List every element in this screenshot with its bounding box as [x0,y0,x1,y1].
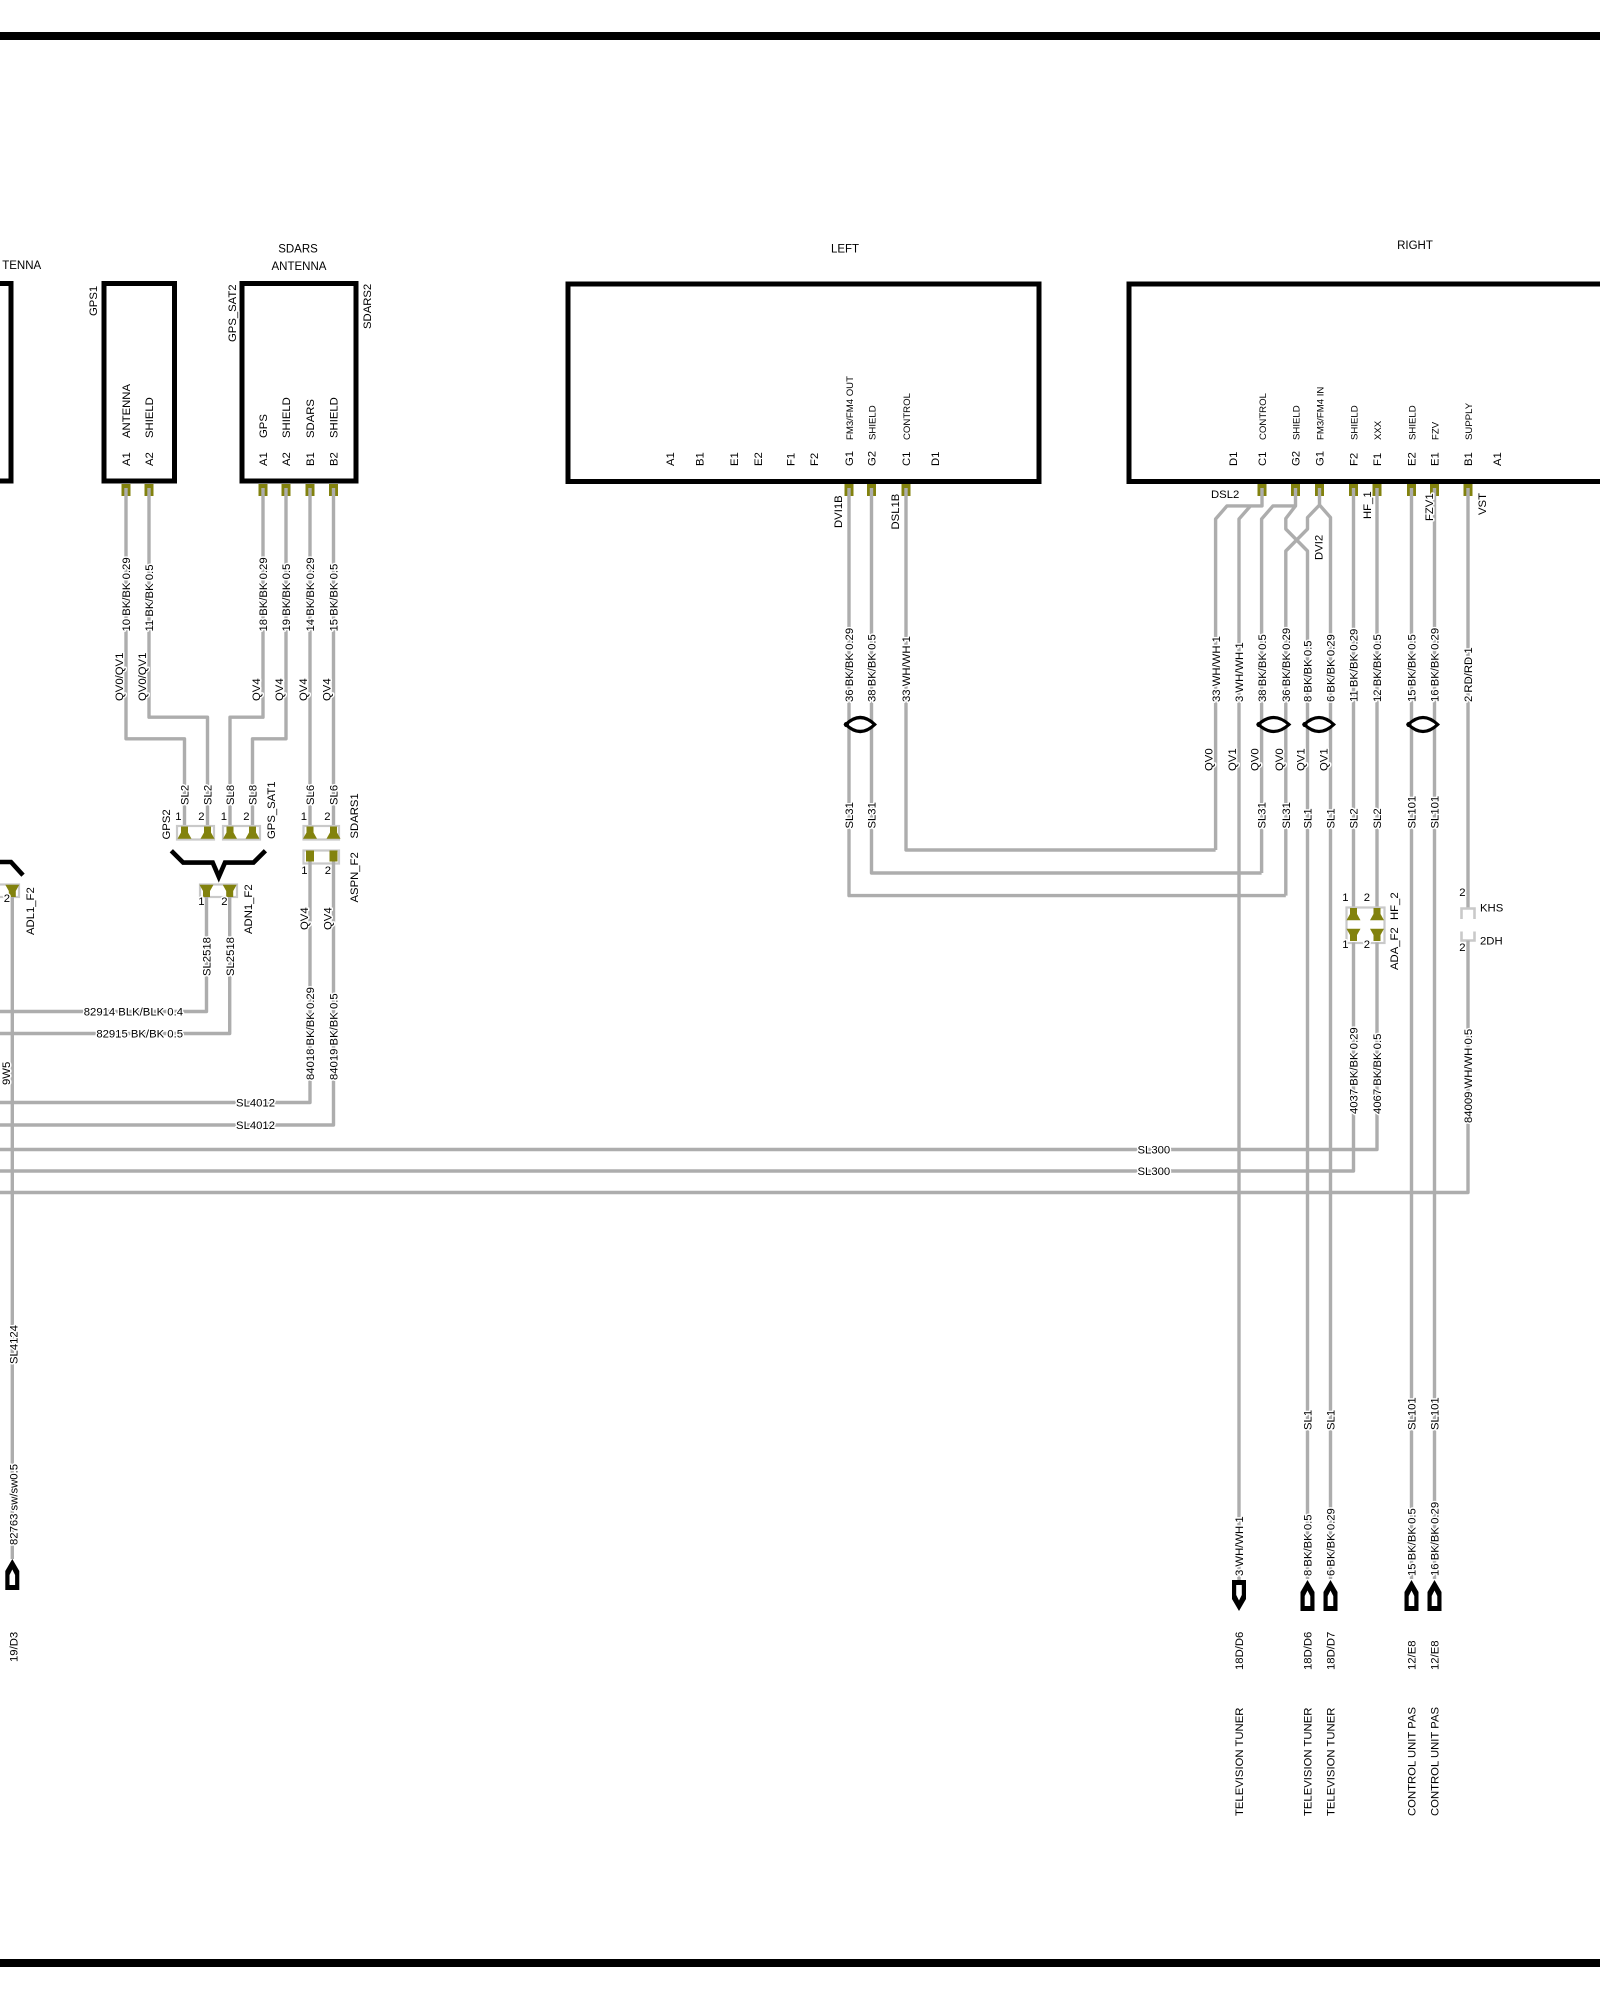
pin stub G2 of RIGHT box [1291,484,1300,496]
svg-text:33 WH/WH 1: 33 WH/WH 1 [901,636,913,702]
svg-text:A2: A2 [281,452,293,466]
svg-text:QV4: QV4 [274,678,286,701]
splice DSL2: RIGHT C1 wire splitting into two [1216,488,1262,850]
off-page arrow up (16 BK/BK 0.29) [1428,1580,1442,1611]
pin stub F2 of RIGHT box [1349,484,1358,496]
connector pin ADN1_F2-2 [223,885,237,897]
svg-text:2: 2 [325,865,331,877]
svg-text:ADA_F2: ADA_F2 [1389,927,1401,970]
svg-text:DSL1B: DSL1B [890,494,902,530]
svg-text:TENNA: TENNA [2,260,41,272]
svg-text:B1: B1 [1463,452,1475,466]
svg-text:19/D3: 19/D3 [9,1632,21,1662]
svg-text:16 BK/BK 0.29: 16 BK/BK 0.29 [1430,1502,1442,1576]
svg-text:G1: G1 [1315,451,1327,466]
svg-text:18D/D7: 18D/D7 [1326,1632,1338,1670]
svg-text:G2: G2 [1291,451,1303,466]
wire ADN1_F2 pin2 to left edge (82915) [0,897,230,1034]
svg-text:SL31: SL31 [1257,802,1269,828]
wire LEFT G2 (38 BK/BK 0.5) to junction with RIGHT 1261.6 [872,488,1262,873]
svg-text:SDARS1: SDARS1 [349,793,361,838]
svg-text:E1: E1 [729,452,741,466]
svg-text:SL1: SL1 [1303,808,1315,828]
svg-text:ASPN_F2: ASPN_F2 [349,852,361,902]
svg-text:SL1: SL1 [1326,1410,1338,1430]
off-page arrow down to television tuner (3 WH/WH 1) [1232,1580,1246,1611]
svg-text:82763 sw/sw0.5: 82763 sw/sw0.5 [9,1464,21,1545]
svg-text:C1: C1 [1257,452,1269,466]
pin stub A2 of SDARS box [282,484,291,496]
connector body SL2 (pins 1-2) [177,826,214,840]
svg-text:HF_1: HF_1 [1362,491,1374,519]
connector pin SL8-1 [223,827,237,839]
svg-text:2: 2 [324,811,330,823]
twisted pair symbol on 15/16 wires [1408,718,1437,732]
svg-text:9W5: 9W5 [1,1062,13,1085]
svg-text:4037 BK/BK 0.29: 4037 BK/BK 0.29 [1349,1027,1361,1114]
pin stub G1 of LEFT box [845,484,854,496]
svg-text:B1: B1 [305,452,317,466]
svg-text:84018 BK/BK 0.29: 84018 BK/BK 0.29 [305,987,317,1080]
off-page arrow up 19/D3 [5,1559,19,1590]
svg-text:38 BK/BK 0.5: 38 BK/BK 0.5 [1257,634,1269,702]
svg-text:SL8: SL8 [248,785,260,805]
pin stub B1 of SDARS box [306,484,315,496]
svg-text:ADN1_F2: ADN1_F2 [243,884,255,934]
svg-text:16 BK/BK 0.29: 16 BK/BK 0.29 [1430,628,1442,702]
wire ADN1_F2 pin1 to left edge (82914) [0,897,207,1012]
svg-text:TELEVISION TUNER: TELEVISION TUNER [1326,1708,1338,1816]
svg-text:QV1: QV1 [1319,748,1331,771]
svg-text:QV1: QV1 [1296,748,1308,771]
wire SDARS A1 to SL8 pin1 [230,488,263,828]
connector GPS1 (GPS antenna) box [104,284,175,482]
svg-text:A2: A2 [144,452,156,466]
svg-text:SL6: SL6 [329,785,341,805]
svg-text:FZV1: FZV1 [1424,493,1436,521]
pin stub F1 of RIGHT box [1373,484,1382,496]
svg-text:1: 1 [1342,939,1348,951]
pin stub C1 of LEFT box [902,484,911,496]
pin stub A2 of GPS1 [145,484,154,496]
SDARS ANTENNA box (GPS_SAT2 / SDARS2) [242,284,356,482]
svg-text:QV0: QV0 [1274,748,1286,771]
svg-text:F2: F2 [809,453,821,466]
wire RIGHT E2 down to off-page arrow [1410,488,1413,1579]
svg-text:FM3/FM4 IN: FM3/FM4 IN [1316,387,1327,440]
svg-text:CONTROL UNIT PAS: CONTROL UNIT PAS [1430,1707,1442,1816]
svg-text:F1: F1 [1372,453,1384,466]
svg-text:SHIELD: SHIELD [1292,405,1303,440]
svg-text:2: 2 [243,811,249,823]
svg-text:SL31: SL31 [844,802,856,828]
svg-text:1: 1 [198,896,204,908]
connector pin SL6-2 [327,827,341,839]
svg-text:3 WH/WH 1: 3 WH/WH 1 [1234,642,1246,702]
wire ASPN_F2 pin1 to left edge (84018/SL4012) [0,862,310,1103]
svg-text:A1: A1 [121,452,133,466]
connector body ASPN_F2 [304,851,340,864]
svg-text:GPS_SAT1: GPS_SAT1 [266,781,278,839]
svg-text:18D/D6: 18D/D6 [1303,1632,1315,1670]
svg-text:19 BK/BK 0.5: 19 BK/BK 0.5 [281,564,293,632]
svg-text:4067 BK/BK 0.5: 4067 BK/BK 0.5 [1372,1034,1384,1114]
pin stub B2 of SDARS box [329,484,338,496]
svg-text:82915 BK/BK 0.5: 82915 BK/BK 0.5 [96,1029,183,1041]
page bottom border bar [0,1959,1600,1967]
pin stub G2 of LEFT box [867,484,876,496]
wire RIGHT E1 down to off-page arrow [1433,488,1436,1579]
svg-text:QV0: QV0 [1250,748,1262,771]
svg-text:2: 2 [1459,942,1465,954]
svg-text:LEFT: LEFT [831,244,859,256]
pin stub E2 of RIGHT box [1407,484,1416,496]
svg-text:QV1: QV1 [1227,748,1239,771]
svg-text:SL6: SL6 [305,785,317,805]
wire ADL1_F2 pin2 down to off-page arrow 19/D3 [11,897,14,1559]
connector pin ADA_F2-1 [1347,929,1361,941]
connector pin HF_2-1 [1347,908,1361,920]
svg-text:15 BK/BK 0.5: 15 BK/BK 0.5 [1407,634,1419,702]
svg-text:2: 2 [221,896,227,908]
svg-text:F2: F2 [1349,453,1361,466]
svg-text:SL101: SL101 [1430,1397,1442,1430]
svg-text:KHS: KHS [1480,903,1504,915]
svg-text:CONTROL UNIT PAS: CONTROL UNIT PAS [1407,1707,1419,1816]
svg-text:SL31: SL31 [867,802,879,828]
connector pin SL2-1 [178,827,192,839]
bundling brace for GPS2/GPS_SAT1 into ADN1_F2 [171,851,265,877]
svg-text:SL2: SL2 [203,785,215,805]
off-page arrow up (6 BK/BK 0.29) [1324,1580,1338,1611]
svg-text:QV0: QV0 [1204,748,1216,771]
svg-text:DSL2: DSL2 [1211,489,1239,501]
svg-text:D1: D1 [1228,452,1240,466]
svg-text:E2: E2 [753,452,765,466]
connector pin ADL1_F2-2 [5,885,19,897]
connector pin ADN1_F2-1 [200,885,214,897]
svg-text:84009 WH/WH 0.5: 84009 WH/WH 0.5 [1463,1029,1475,1123]
svg-text:84019 BK/BK 0.5: 84019 BK/BK 0.5 [329,993,341,1080]
svg-text:12/E8: 12/E8 [1407,1640,1419,1670]
wire SDARS A2 to SL8 pin2 [253,488,287,828]
connector half KHS (opening down) [1462,909,1475,920]
svg-text:ANTENNA: ANTENNA [121,384,133,438]
pin stub C1 of RIGHT box [1258,484,1267,496]
svg-text:2: 2 [198,811,204,823]
svg-text:14 BK/BK 0.29: 14 BK/BK 0.29 [305,557,317,631]
wire SDARS B2 to SL6 pin2 [332,488,335,828]
connector pin HF_2-2 [1370,908,1384,920]
svg-text:SL101: SL101 [1430,796,1442,829]
svg-text:11 BK/BK 0.5: 11 BK/BK 0.5 [144,565,156,632]
svg-text:QV4: QV4 [298,678,310,701]
svg-text:10 BK/BK 0.29: 10 BK/BK 0.29 [121,557,133,631]
svg-text:SL2: SL2 [180,785,192,805]
svg-text:GPS_SAT2: GPS_SAT2 [227,284,239,342]
svg-text:VST: VST [1477,493,1489,515]
page top border bar [0,32,1600,40]
svg-text:6 BK/BK 0.29: 6 BK/BK 0.29 [1326,1508,1338,1576]
svg-text:TELEVISION TUNER: TELEVISION TUNER [1303,1708,1315,1816]
svg-text:SL2518: SL2518 [225,937,237,976]
svg-text:CONTROL: CONTROL [902,392,913,440]
wire 2DH down (84009) to line3 [0,941,1468,1193]
svg-text:GPS: GPS [258,414,270,438]
svg-text:SL300: SL300 [1138,1166,1171,1178]
svg-text:18D/D6: 18D/D6 [1234,1632,1246,1670]
svg-text:11 BK/BK 0.29: 11 BK/BK 0.29 [1349,629,1361,702]
connector pin ASPN_F2-1 [306,851,314,862]
svg-text:FM3/FM4 OUT: FM3/FM4 OUT [845,376,856,440]
svg-text:1: 1 [1342,892,1348,904]
svg-text:SL8: SL8 [225,785,237,805]
svg-text:D1: D1 [930,452,942,466]
svg-text:SL31: SL31 [1281,802,1293,828]
svg-text:SHIELD: SHIELD [281,397,293,438]
connector body HF_2/ADA_F2 [1347,908,1385,944]
svg-text:ADL1_F2: ADL1_F2 [25,887,37,935]
svg-text:38 BK/BK 0.5: 38 BK/BK 0.5 [867,634,879,702]
svg-text:SDARS2: SDARS2 [362,284,374,329]
svg-text:QV4: QV4 [251,678,263,701]
svg-text:SL1: SL1 [1303,1410,1315,1430]
wire LEFT G1 (36 BK/BK 0.29) to junction with RIGHT 1285.8 [849,488,1286,896]
pin stub G1 of RIGHT box [1315,484,1324,496]
wire GPS1 A1 to SL2 pin1 [126,488,185,828]
connector body ADL1_F2 (cut off) [0,885,19,898]
svg-text:33 WH/WH 1: 33 WH/WH 1 [1211,636,1223,702]
svg-text:SHIELD: SHIELD [1350,405,1361,440]
wire ADA_F2 pin2 (4067) to SL300 line1 [0,943,1377,1150]
svg-text:GPS1: GPS1 [88,286,100,316]
svg-text:DVI1B: DVI1B [833,495,845,528]
svg-text:SHIELD: SHIELD [144,397,156,438]
connector body SL6 (pins 1-2) [304,826,340,840]
svg-text:QV0/QV1: QV0/QV1 [137,653,149,701]
svg-text:HF_2: HF_2 [1389,892,1401,920]
svg-text:SL2: SL2 [1349,808,1361,828]
svg-text:GPS2: GPS2 [161,809,173,839]
svg-text:2: 2 [4,893,10,905]
connector pin SL8-2 [246,827,260,839]
svg-text:SHIELD: SHIELD [868,405,879,440]
svg-text:C1: C1 [901,452,913,466]
connector pin ADA_F2-2 [1370,929,1384,941]
svg-text:1: 1 [301,865,307,877]
twisted pair symbol on 8/6 wires [1304,718,1333,732]
svg-text:FZV: FZV [1431,421,1442,440]
svg-text:DVI2: DVI2 [1314,535,1326,560]
svg-text:G2: G2 [867,451,879,466]
svg-text:2DH: 2DH [1480,936,1503,948]
svg-text:8 BK/BK 0.5: 8 BK/BK 0.5 [1303,1514,1315,1576]
connector pin SL2-2 [201,827,215,839]
RIGHT control unit box (cut off at right edge) [1129,284,1600,482]
svg-text:SL2518: SL2518 [202,937,214,976]
pin stub A1 of SDARS box [259,484,268,496]
svg-text:36 BK/BK 0.29: 36 BK/BK 0.29 [1281,628,1293,702]
svg-text:SL1: SL1 [1326,808,1338,828]
wire ADA_F2 pin1 (4037) to SL300 line2 [0,943,1354,1172]
svg-text:SHIELD: SHIELD [1408,405,1419,440]
svg-text:36 BK/BK 0.29: 36 BK/BK 0.29 [844,628,856,702]
wire SDARS B1 to SL6 pin1 [308,488,311,828]
svg-text:2 RD/RD 1: 2 RD/RD 1 [1463,647,1475,702]
svg-text:SL4012: SL4012 [236,1098,275,1110]
svg-text:SDARS: SDARS [305,399,317,438]
wire RIGHT B1 (2 RD/RD 1) down to KHS [1466,488,1469,908]
svg-text:8 BK/BK 0.5: 8 BK/BK 0.5 [1303,640,1315,702]
svg-text:SL101: SL101 [1407,1397,1419,1430]
wire RIGHT F1 to HF_2 pin2 [1375,488,1378,909]
svg-text:B2: B2 [329,452,341,466]
svg-text:SL300: SL300 [1138,1145,1171,1157]
connector half 2DH (opening up) [1462,932,1475,941]
wire GPS1 A2 to SL2 pin2 [149,488,208,828]
svg-text:SL4124: SL4124 [9,1325,21,1364]
twisted pair symbol on LEFT G1/G2 wires [846,718,875,732]
connector pin SL6-1 [303,827,317,839]
connector body ADN1_F2 [200,885,237,898]
svg-text:XXX: XXX [1373,420,1384,440]
svg-text:SDARS: SDARS [278,244,318,256]
svg-text:3 WH/WH 1: 3 WH/WH 1 [1234,1516,1246,1576]
svg-text:A1: A1 [1492,452,1504,466]
svg-text:QV4: QV4 [323,907,335,930]
svg-text:SL2: SL2 [1372,808,1384,828]
svg-text:SL4012: SL4012 [236,1120,275,1132]
off-page arrow up (15 BK/BK 0.5) [1405,1580,1419,1611]
LEFT control unit box [568,284,1039,482]
svg-text:2: 2 [1459,887,1465,899]
pin stub B1 of RIGHT box [1464,484,1473,496]
svg-text:RIGHT: RIGHT [1397,240,1433,252]
svg-text:G1: G1 [844,451,856,466]
svg-text:E1: E1 [1430,452,1442,466]
svg-text:A1: A1 [665,452,677,466]
svg-text:QV4: QV4 [322,678,334,701]
splice at RIGHT G2: branch to 38 BK/BK and to SL1 (via crossover) [1262,488,1296,873]
svg-text:B1: B1 [695,452,707,466]
wire LEFT C1 (33 WH/WH 1) to junction with RIGHT 1215.6 [906,488,1216,850]
wire ASPN_F2 pin2 to left edge (84019/SL4012) [0,862,334,1126]
svg-text:TELEVISION TUNER: TELEVISION TUNER [1234,1708,1246,1816]
pin stub A1 of GPS1 [122,484,131,496]
svg-text:SUPPLY: SUPPLY [1464,402,1475,440]
svg-text:18 BK/BK 0.29: 18 BK/BK 0.29 [258,557,270,631]
svg-text:2: 2 [1364,939,1370,951]
svg-text:QV0/QV1: QV0/QV1 [114,653,126,701]
svg-text:SHIELD: SHIELD [329,397,341,438]
splice DVI2 at RIGHT G1: Y-split with crossover [1286,488,1320,896]
bundling brace fragment for ADL1_F2 (cut off) [0,862,23,875]
svg-text:82914 BLK/BLK 0.4: 82914 BLK/BLK 0.4 [84,1007,183,1019]
svg-text:ANTENNA: ANTENNA [272,261,327,273]
svg-text:CONTROL: CONTROL [1258,392,1269,440]
svg-text:15 BK/BK 0.5: 15 BK/BK 0.5 [329,564,341,632]
connector pin ASPN_F2-2 [330,851,338,862]
pin stub E1 of RIGHT box [1430,484,1439,496]
antenna box (cut off at left edge) with label ANTENNA [0,284,11,482]
svg-text:F1: F1 [786,453,798,466]
svg-text:SL101: SL101 [1407,796,1419,829]
svg-text:15 BK/BK 0.5: 15 BK/BK 0.5 [1407,1508,1419,1576]
off-page arrow up (8 BK/BK 0.5) [1301,1580,1315,1611]
svg-text:1: 1 [301,811,307,823]
svg-text:QV4: QV4 [299,907,311,930]
svg-text:6 BK/BK 0.29: 6 BK/BK 0.29 [1326,634,1338,702]
svg-text:1: 1 [221,811,227,823]
twisted pair symbol on 38/36 wires [1258,718,1289,732]
svg-text:2: 2 [1364,892,1370,904]
connector body SL8 (pins 1-2) [223,826,260,840]
svg-text:12 BK/BK 0.5: 12 BK/BK 0.5 [1372,634,1384,702]
wire RIGHT F2 to HF_2 pin1 [1352,488,1355,909]
svg-text:E2: E2 [1407,452,1419,466]
svg-text:12/E8: 12/E8 [1430,1640,1442,1670]
svg-text:1: 1 [175,811,181,823]
svg-text:A1: A1 [258,452,270,466]
